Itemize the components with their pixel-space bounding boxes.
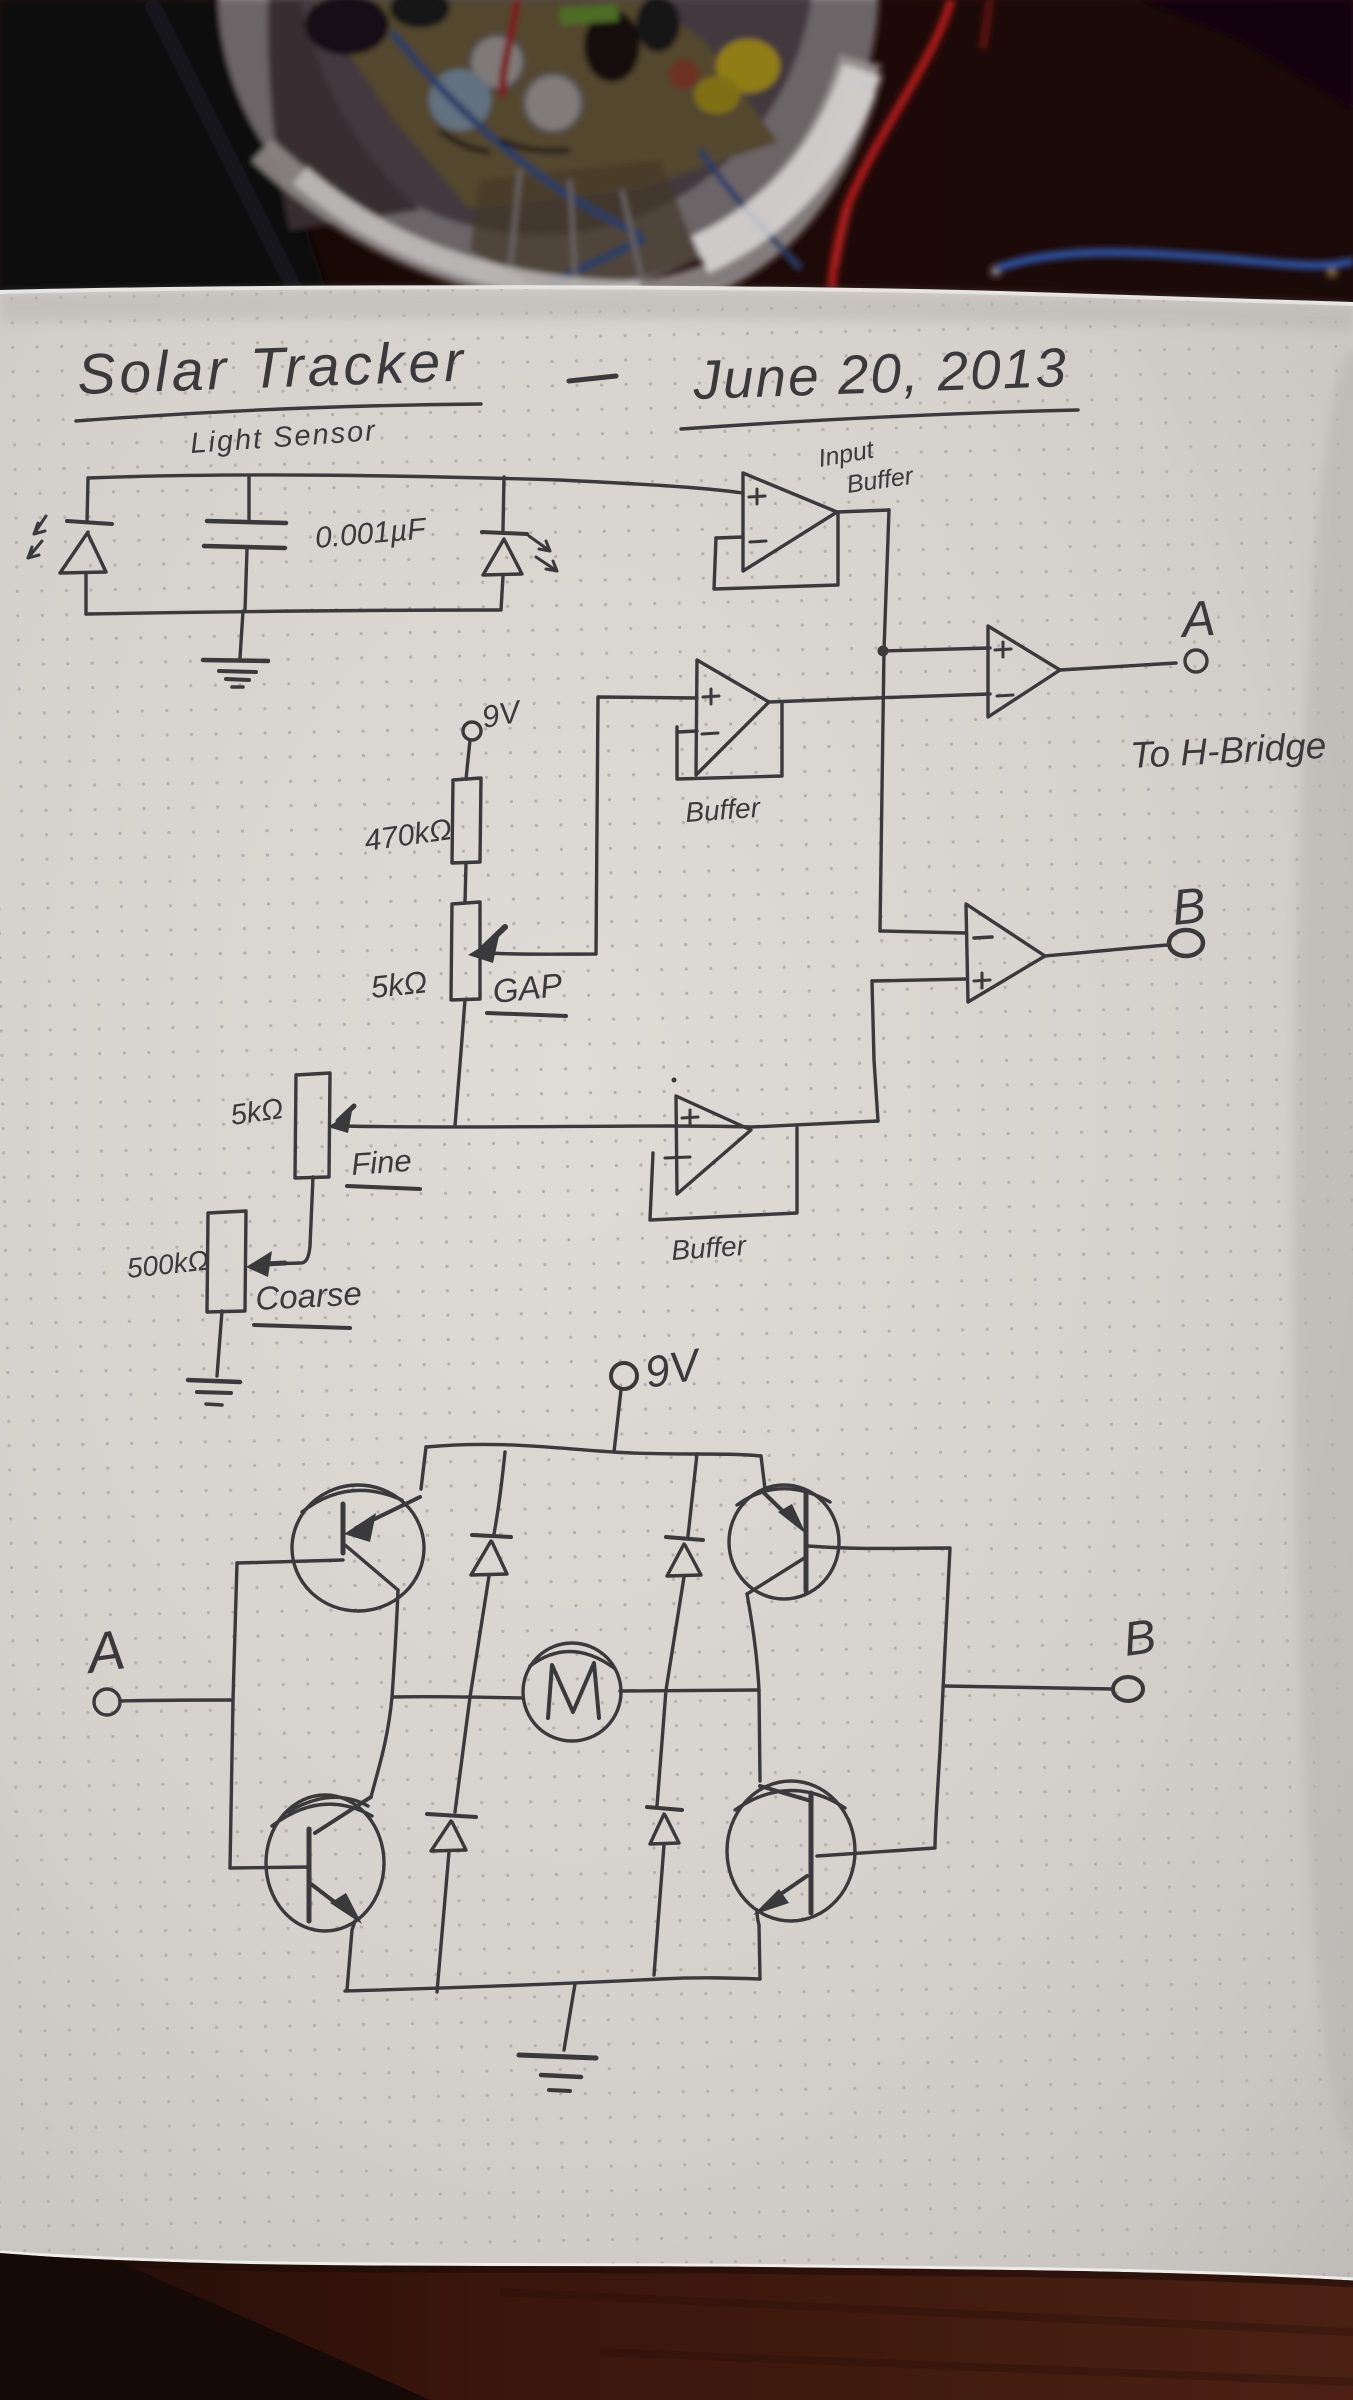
wire ground rail xyxy=(345,1978,760,1991)
wire A to base bus xyxy=(120,1700,233,1701)
bowl interior xyxy=(266,0,814,235)
wire left base vertical xyxy=(230,1563,237,1868)
motor M xyxy=(523,1643,621,1741)
potentiometer R3 5k Fine xyxy=(295,1073,354,1178)
node A terminal bottom xyxy=(80,1617,129,1715)
wire capacitor ground stem xyxy=(240,611,243,658)
node B terminal bottom xyxy=(1113,1610,1159,1701)
wire Q2 base to B bus xyxy=(808,1546,950,1856)
wire U5 plus input xyxy=(872,979,966,981)
comparator U5 B xyxy=(966,904,1045,1002)
wire bus to U5 minus xyxy=(880,931,966,933)
wire U2 feedback xyxy=(677,703,782,779)
wire sensor left edge xyxy=(87,478,88,522)
diode D7 top-right column xyxy=(666,1454,703,1690)
op-amp U2 buffer xyxy=(678,660,769,775)
wire sensor bottom rail xyxy=(86,610,499,614)
diode D5 top-left column xyxy=(470,1452,511,1697)
wire motor left rail xyxy=(392,1697,523,1698)
node B terminal xyxy=(1169,930,1203,956)
label Fine xyxy=(347,1143,420,1189)
bowl rim highlight xyxy=(262,90,862,295)
wire U4 output xyxy=(1060,663,1176,670)
title dash xyxy=(569,376,616,381)
comparator U4 A xyxy=(988,626,1060,717)
wire B to base bus xyxy=(945,1686,1113,1689)
wire 9V to R1 xyxy=(466,740,470,779)
wire top rail left drop xyxy=(421,1447,426,1489)
svg-text:June 20, 2013: June 20, 2013 xyxy=(691,336,1069,411)
desk wires right xyxy=(832,0,951,287)
top desk background xyxy=(0,0,1353,300)
9V terminal T2 xyxy=(611,1340,706,1398)
wire R2 wiper to U2 xyxy=(486,697,697,954)
svg-text:Buffer: Buffer xyxy=(670,1230,748,1266)
title June 20, 2013 xyxy=(681,336,1078,429)
wire motor right rail xyxy=(620,1690,759,1691)
wire junction to U4 xyxy=(883,648,990,651)
LED D2 xyxy=(482,477,557,610)
photodiode D1 xyxy=(28,516,112,614)
wire Q1 base xyxy=(237,1560,343,1563)
ground G2 xyxy=(188,1380,240,1405)
label GAP xyxy=(487,966,566,1016)
transistor Q4 NPN bottom-right xyxy=(727,1781,855,1921)
wire top rail right drop xyxy=(761,1456,765,1489)
wire R3 bottom to R4 wiper xyxy=(266,1177,313,1264)
wire Q3 emitter down xyxy=(347,1921,355,1990)
title Solar Tracker xyxy=(76,329,481,421)
wire Q3 base xyxy=(230,1867,309,1868)
resistor R1 470k xyxy=(452,778,481,863)
svg-text:GAP: GAP xyxy=(491,966,564,1010)
transistor Q2 PNP top-right xyxy=(729,1485,839,1599)
diode D8 bottom-right column xyxy=(647,1690,682,1975)
wire R2 bottom down xyxy=(455,1000,465,1126)
9V terminal T1 xyxy=(463,693,526,740)
svg-text:Fine: Fine xyxy=(350,1143,413,1182)
ground G1 xyxy=(203,660,268,687)
diode D6 bottom-left column xyxy=(427,1697,476,1992)
PCB xyxy=(312,0,778,208)
potentiometer R4 500k Coarse xyxy=(207,1211,285,1312)
wire R1 to R2 xyxy=(465,863,466,903)
svg-text:B: B xyxy=(1169,877,1208,936)
node junction dot xyxy=(878,646,889,657)
wire Q4 emitter down xyxy=(757,1910,760,1979)
wire U3 feedback xyxy=(650,1128,797,1220)
label Input Buffer xyxy=(816,435,916,498)
photo scene top xyxy=(0,0,1353,300)
bowl outer xyxy=(218,0,878,292)
svg-text:A: A xyxy=(1177,590,1217,648)
transistor Q3 NPN bottom-left xyxy=(266,1795,384,1931)
ground G3 xyxy=(519,2055,596,2091)
op-amp U1 input buffer xyxy=(716,473,837,571)
svg-text:Coarse: Coarse xyxy=(254,1274,362,1317)
bottom desk xyxy=(0,2252,1353,2400)
wire U5 output xyxy=(1045,945,1168,956)
capacitor C1 0.001uF xyxy=(204,477,286,611)
svg-text:5kΩ: 5kΩ xyxy=(369,964,429,1005)
node A terminal xyxy=(1185,650,1207,672)
wire R4 to ground xyxy=(217,1311,222,1376)
potentiometer R2 5k GAP xyxy=(451,902,505,1000)
svg-text:Buffer: Buffer xyxy=(684,792,762,828)
wire U2 output to U4 xyxy=(769,694,990,702)
transistor Q1 PNP top-left xyxy=(292,1485,424,1611)
wire R3 wiper long horizontal xyxy=(340,1121,878,1127)
wire Q1 collector down xyxy=(371,1590,398,1797)
wire ground stem xyxy=(564,1984,575,2050)
svg-text:Solar Tracker: Solar Tracker xyxy=(76,329,468,407)
wire sensor top rail xyxy=(88,475,743,493)
wire H-bridge top rail xyxy=(426,1444,761,1456)
op-amp U3 buffer bottom xyxy=(665,1078,751,1195)
wire U5 plus vertical xyxy=(872,981,878,1121)
wire 9V to top rail xyxy=(614,1390,621,1452)
wire Q2 collector down xyxy=(747,1594,760,1781)
dark object top-left xyxy=(0,0,330,300)
label Coarse xyxy=(254,1274,363,1328)
wire U1 feedback xyxy=(714,514,838,589)
wire U1 output xyxy=(837,510,889,512)
wire vertical bus from U1 xyxy=(880,510,889,931)
